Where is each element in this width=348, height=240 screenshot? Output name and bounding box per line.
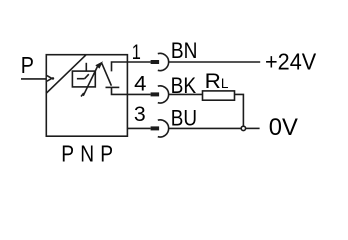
threshold element box xyxy=(72,71,95,87)
svg-text:0V: 0V xyxy=(269,114,298,141)
label RL xyxy=(205,69,229,93)
svg-text:R: R xyxy=(205,69,221,93)
contact link to pin 4 xyxy=(112,87,128,94)
label 0V xyxy=(269,114,298,141)
svg-text:+24V: +24V xyxy=(265,49,316,75)
wire pin 3 lead xyxy=(127,127,150,129)
wire BN xyxy=(168,61,260,63)
resistor RL xyxy=(203,91,235,100)
svg-text:BN: BN xyxy=(171,39,198,64)
input arrow xyxy=(47,76,54,82)
wire pin 1 lead xyxy=(127,61,150,63)
svg-text:4: 4 xyxy=(134,71,146,96)
label PNP xyxy=(61,141,119,167)
connector pin 3 plug xyxy=(151,126,160,130)
svg-text:PNP: PNP xyxy=(61,141,119,167)
switch arm xyxy=(102,63,112,85)
wire P input xyxy=(21,78,46,80)
fixed contact stub pin 1 xyxy=(112,62,128,71)
label BU xyxy=(171,106,197,131)
wire BK xyxy=(168,93,202,95)
adjustment arrow xyxy=(81,61,103,96)
piston line xyxy=(77,74,89,79)
label P pressure input xyxy=(21,51,34,78)
pin 4 label xyxy=(134,71,146,96)
svg-text:BU: BU xyxy=(171,106,197,131)
svg-text:P: P xyxy=(21,51,34,78)
pin 3 label xyxy=(134,102,146,126)
connector pin 1 plug xyxy=(151,60,160,64)
label BN xyxy=(171,39,198,64)
node junction 0V xyxy=(241,126,245,130)
wire node to 0V xyxy=(246,127,260,129)
svg-text:BK: BK xyxy=(171,74,197,99)
label +24V supply xyxy=(265,49,316,75)
switch contact crossbar xyxy=(106,86,120,88)
connector pin 4 socket xyxy=(158,86,169,103)
wire pin 4 lead xyxy=(127,93,150,95)
connector pin 3 socket xyxy=(158,120,169,137)
connector pin 4 plug xyxy=(151,92,160,96)
pin 1 label xyxy=(132,41,141,65)
svg-text:3: 3 xyxy=(134,102,146,126)
wire RL to node xyxy=(235,94,244,126)
wire BU xyxy=(168,127,241,129)
sensor box U1 outline xyxy=(46,55,127,137)
converter diagonal xyxy=(46,55,86,93)
svg-text:L: L xyxy=(221,76,229,91)
plunger link xyxy=(85,63,87,71)
connector pin 1 socket xyxy=(158,53,169,70)
label BK xyxy=(171,74,197,99)
